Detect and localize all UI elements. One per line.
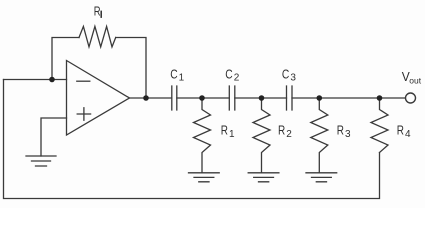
svg-text:1: 1	[229, 129, 235, 140]
svg-text:1: 1	[179, 73, 185, 84]
svg-text:R: R	[397, 123, 404, 138]
svg-text:R: R	[337, 123, 344, 138]
svg-text:R: R	[94, 3, 101, 18]
svg-text:C: C	[170, 66, 177, 81]
svg-text:C: C	[282, 66, 289, 81]
svg-text:4: 4	[405, 129, 411, 140]
svg-text:C: C	[225, 66, 232, 81]
svg-text:R: R	[221, 123, 228, 138]
svg-text:2: 2	[286, 129, 292, 140]
svg-text:R: R	[278, 123, 285, 138]
svg-text:2: 2	[234, 73, 240, 84]
svg-text:out: out	[409, 76, 421, 86]
svg-text:3: 3	[345, 129, 351, 140]
svg-text:3: 3	[290, 73, 296, 84]
